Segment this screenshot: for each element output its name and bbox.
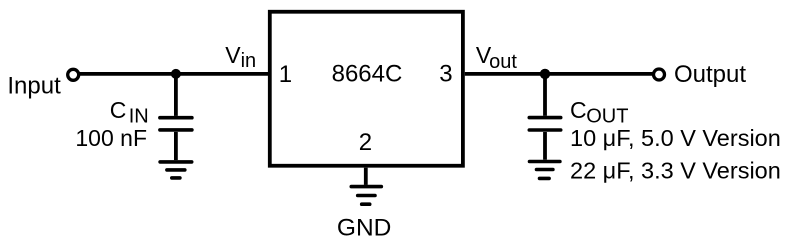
label CIN — [110, 97, 149, 127]
node A input junction — [171, 69, 181, 79]
svg-text:OUT: OUT — [586, 106, 628, 128]
svg-text:C: C — [110, 97, 127, 123]
label COUT — [570, 97, 628, 128]
svg-text:10 μF, 5.0 V Version: 10 μF, 5.0 V Version — [570, 125, 781, 151]
wire capacitor CIN to ground — [174, 132, 178, 160]
input terminal — [68, 69, 79, 80]
svg-text:GND: GND — [337, 215, 391, 242]
op-amp U1 box 8664C — [270, 12, 463, 166]
wire pin 3 to output — [465, 72, 653, 76]
wire node B to capacitor COUT — [543, 74, 547, 116]
node B output junction — [540, 69, 550, 79]
svg-text:V: V — [225, 42, 241, 68]
svg-text:8664C: 8664C — [332, 60, 403, 87]
output terminal — [654, 69, 665, 80]
wire pin 2 to ground — [364, 168, 368, 185]
ground below CIN — [160, 162, 192, 178]
label Vout — [476, 42, 517, 73]
ground below COUT — [530, 162, 560, 179]
svg-text:2: 2 — [359, 129, 372, 156]
svg-text:Output: Output — [674, 61, 746, 88]
label Vin — [225, 42, 256, 72]
svg-text:in: in — [241, 50, 257, 72]
svg-text:Input: Input — [7, 73, 61, 100]
svg-text:3: 3 — [439, 61, 452, 88]
svg-text:C: C — [570, 97, 587, 123]
svg-text:out: out — [489, 51, 517, 73]
capacitor CIN — [160, 118, 192, 130]
wire node A to capacitor CIN — [174, 74, 178, 116]
svg-text:22 μF, 3.3 V Version: 22 μF, 3.3 V Version — [570, 158, 781, 184]
capacitor COUT — [529, 118, 560, 130]
svg-text:100 nF: 100 nF — [75, 125, 147, 151]
wire capacitor COUT to ground — [543, 132, 547, 160]
ground below pin 2 — [351, 187, 381, 205]
wire input to pin 1 — [80, 72, 269, 76]
svg-text:1: 1 — [279, 61, 292, 88]
